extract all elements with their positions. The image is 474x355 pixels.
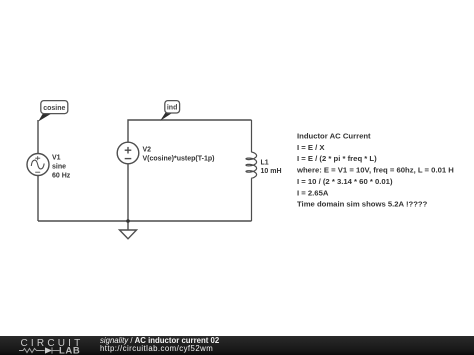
svg-text:cosine: cosine bbox=[43, 105, 65, 112]
svg-text:L1: L1 bbox=[261, 160, 269, 167]
svg-text:I = E / X: I = E / X bbox=[297, 143, 325, 152]
svg-text:Inductor AC Current: Inductor AC Current bbox=[297, 132, 371, 141]
svg-text:ind: ind bbox=[167, 104, 178, 111]
svg-text:I = E / (2 * pi * freq * L): I = E / (2 * pi * freq * L) bbox=[297, 154, 377, 163]
svg-text:sine: sine bbox=[52, 164, 66, 171]
svg-text:V2: V2 bbox=[143, 147, 152, 154]
svg-text:LAB: LAB bbox=[59, 346, 80, 355]
svg-text:Time domain sim shows 5.2A !??: Time domain sim shows 5.2A !???? bbox=[297, 200, 428, 209]
svg-text:10 mH: 10 mH bbox=[261, 168, 282, 175]
svg-text:I = 10 / (2 * 3.14 * 60 * 0.01: I = 10 / (2 * 3.14 * 60 * 0.01) bbox=[297, 177, 393, 186]
svg-text:V(cosine)*ustep(T-1p): V(cosine)*ustep(T-1p) bbox=[143, 156, 215, 163]
svg-text:60 Hz: 60 Hz bbox=[52, 173, 71, 180]
svg-text:V1: V1 bbox=[52, 155, 61, 162]
svg-text:I = 2.65A: I = 2.65A bbox=[297, 188, 329, 197]
svg-text:where: E = V1 = 10V, freq = 60: where: E = V1 = 10V, freq = 60hz, L = 0.… bbox=[296, 166, 454, 175]
